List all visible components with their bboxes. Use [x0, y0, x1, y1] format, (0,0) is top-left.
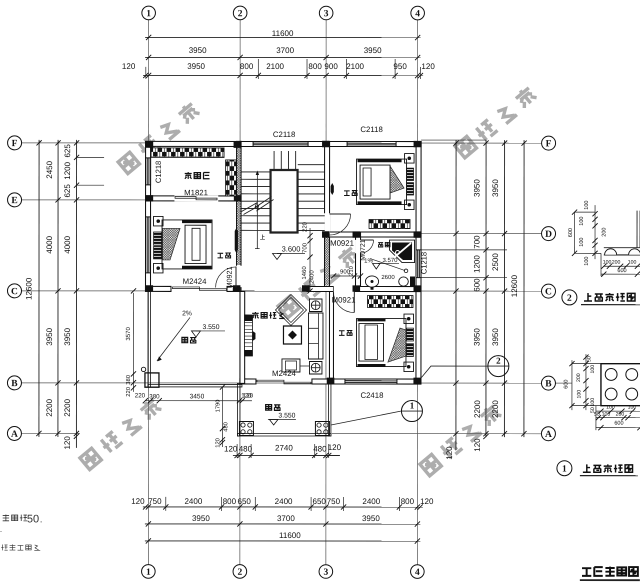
svg-text:D: D: [545, 230, 552, 240]
bedroom1 nightstand top: [154, 216, 164, 226]
svg-text:700: 700: [473, 235, 482, 249]
svg-text:200: 200: [612, 260, 621, 266]
svg-text:100: 100: [590, 398, 596, 407]
svg-text:900: 900: [340, 270, 351, 276]
svg-text:4: 4: [415, 9, 420, 19]
wardrobe band closet right: [226, 160, 237, 196]
level 3.570: [378, 263, 399, 265]
terrace parapet bottom: [148, 384, 242, 387]
svg-text:3950: 3950: [63, 327, 72, 345]
svg-text:3.550: 3.550: [278, 412, 295, 419]
svg-text:3950: 3950: [189, 46, 207, 55]
svg-text:3: 3: [324, 9, 329, 19]
svg-text:12600: 12600: [24, 277, 33, 300]
svg-text:4000: 4000: [45, 235, 54, 253]
column detail 2 drawing: [574, 212, 576, 253]
svg-text:2200: 2200: [491, 400, 500, 418]
desk+chair: [282, 359, 300, 372]
window C1218 closet left: [146, 158, 151, 185]
svg-text:2200: 2200: [45, 398, 54, 416]
window C1218 bath right: [416, 250, 421, 278]
svg-text:C: C: [11, 287, 18, 297]
column section 600x600: [601, 364, 640, 406]
svg-text:3950: 3950: [45, 327, 54, 345]
svg-text:750: 750: [327, 497, 341, 506]
svg-text:480: 480: [223, 422, 229, 432]
svg-text:600: 600: [617, 268, 626, 274]
svg-text:100: 100: [628, 260, 637, 266]
svg-text:2600: 2600: [381, 275, 395, 281]
svg-text:120: 120: [420, 497, 434, 506]
door M2424 family sliding: [257, 380, 284, 382]
door M0721 bath leaf+arc: [361, 239, 374, 241]
stair well landing void: [271, 170, 298, 233]
bath slope line: [370, 259, 405, 271]
svg-text:50: 50: [586, 356, 592, 362]
svg-text:50: 50: [27, 513, 39, 525]
bedroom1 bed: [162, 220, 212, 269]
svg-text:3.600: 3.600: [282, 244, 301, 253]
bedroom2 dresser: [369, 220, 410, 229]
svg-text:100: 100: [606, 405, 615, 411]
svg-text:380: 380: [149, 393, 160, 400]
svg-text:220: 220: [135, 392, 146, 399]
grid bubble A left: [7, 426, 21, 440]
balcony railing: [237, 383, 240, 436]
ext line 625: [77, 156, 105, 158]
wall family room left: [240, 291, 245, 383]
svg-text:C2418: C2418: [360, 391, 383, 400]
side table bottom: [309, 361, 322, 374]
svg-text:.: .: [40, 514, 43, 524]
svg-text:3950: 3950: [472, 328, 481, 346]
bedroom2 wall lens: [331, 183, 334, 195]
svg-text:M0921: M0921: [330, 239, 354, 248]
bottom main dimension lines: [143, 506, 423, 508]
text 柱子大样图 1: [583, 464, 633, 472]
label 卧室 bedroom1: [218, 253, 231, 258]
detail callout 1: [331, 411, 402, 425]
wall bathroom left: [356, 232, 361, 292]
right dimension lines: [455, 140, 457, 450]
axis D: [416, 233, 542, 235]
svg-text:800: 800: [240, 62, 254, 71]
svg-text:3.570: 3.570: [383, 258, 399, 264]
svg-text:2400: 2400: [275, 497, 293, 506]
note 际施工确定: [1, 544, 39, 550]
svg-text:100: 100: [579, 217, 585, 226]
columns at wall junctions: [146, 141, 154, 147]
svg-text:2200: 2200: [473, 400, 482, 418]
terrace drain: [141, 367, 145, 371]
svg-text:800: 800: [223, 497, 237, 506]
wall row C segments: [146, 286, 172, 291]
text 柱子大样图 2: [584, 293, 635, 301]
svg-text:2740: 2740: [275, 443, 293, 452]
grid bubble C left: [7, 284, 21, 298]
svg-text:C1218: C1218: [420, 252, 429, 274]
grid bubble F left: [8, 136, 22, 150]
toilet: [399, 277, 409, 286]
svg-text:120: 120: [473, 438, 482, 452]
corner column terrace B1: [145, 373, 159, 387]
grid bubble 2 top: [233, 6, 247, 20]
wall col2 (stairwell left): [237, 141, 242, 291]
svg-text:120: 120: [63, 436, 72, 450]
label 衣帽间: [185, 172, 210, 179]
svg-text:12600: 12600: [510, 274, 519, 297]
svg-text:100: 100: [576, 390, 582, 399]
svg-text:2: 2: [567, 294, 572, 304]
svg-text:220: 220: [303, 221, 309, 232]
svg-text:3950: 3950: [187, 62, 205, 71]
bedroom3 bed: [356, 319, 406, 367]
hall dim chain: [309, 228, 311, 291]
svg-text:C1218: C1218: [154, 161, 163, 183]
grid bubble 4 bottom: [411, 565, 425, 579]
door opening M1821: [174, 195, 218, 201]
svg-text:2500: 2500: [491, 253, 500, 271]
watermark 2 图纸之家: [455, 85, 538, 158]
svg-text:M1821: M1821: [184, 188, 208, 197]
door opening M0921 bedroom1: [236, 266, 242, 287]
svg-text:120: 120: [445, 446, 454, 460]
label 露台: [182, 337, 196, 343]
grid bubble B left: [7, 376, 21, 390]
svg-text:600: 600: [614, 421, 623, 427]
svg-text:100: 100: [579, 238, 585, 247]
svg-text:3950: 3950: [473, 179, 482, 197]
terrace parapet left: [148, 291, 151, 387]
svg-text:3570: 3570: [126, 327, 132, 341]
svg-text:2%: 2%: [182, 310, 192, 317]
sofa: [308, 313, 323, 359]
label 公卫: [378, 242, 390, 247]
stair treads left flight: [241, 172, 270, 230]
svg-text:3.550: 3.550: [202, 324, 219, 331]
svg-text:A: A: [545, 430, 552, 440]
coffee table: [283, 326, 301, 344]
floor drain bath: [404, 269, 408, 273]
svg-text:11600: 11600: [272, 29, 294, 38]
door opening M0921 bedroom2: [324, 213, 330, 234]
door opening M0721 bath: [355, 240, 361, 253]
grid axis lines: [147, 20, 149, 565]
top dimension lines: [145, 36, 420, 38]
side table top: [309, 299, 322, 312]
svg-text:380: 380: [126, 375, 132, 385]
svg-text:M2424: M2424: [272, 369, 297, 378]
svg-text:B: B: [11, 379, 18, 389]
svg-text:3950: 3950: [491, 328, 500, 346]
ext line window: [421, 249, 507, 251]
svg-text:100: 100: [602, 412, 611, 418]
door M0921 bedroom3 leaf+arc: [353, 292, 355, 313]
svg-text:3: 3: [323, 568, 328, 578]
door M0921 bedroom1 leaf+arc: [235, 266, 237, 287]
svg-text:600: 600: [568, 228, 574, 237]
wall exterior left: [146, 141, 151, 291]
grid bubble 3 top: [319, 6, 333, 20]
bedroom1 headboard cabinets: [154, 232, 162, 246]
svg-text:600: 600: [563, 380, 569, 389]
bedroom3 headboard cabinets: [406, 328, 413, 341]
grid bubble 3 bottom: [319, 565, 333, 579]
svg-text:1460: 1460: [302, 266, 308, 280]
svg-text:3700: 3700: [277, 514, 295, 523]
svg-text:4: 4: [415, 568, 420, 578]
wall row D (bedroom2/bath): [325, 232, 422, 237]
svg-text:1: 1: [146, 568, 151, 578]
svg-text:700: 700: [303, 242, 309, 253]
svg-text:600: 600: [473, 278, 482, 292]
wall row B (family+bedroom3 bottom): [240, 379, 256, 384]
stair break line: [242, 196, 272, 211]
svg-text:950: 950: [393, 62, 407, 71]
svg-text:480: 480: [313, 444, 327, 453]
window C2118 bedroom2: [347, 142, 396, 147]
rebar circle: [626, 369, 638, 381]
rebar circle: [626, 388, 638, 400]
door M2424 sliding (bedroom1): [173, 287, 200, 289]
svg-text:M2424: M2424: [183, 277, 208, 286]
wall row E (closet/bedroom1): [146, 196, 242, 201]
svg-text:3950: 3950: [491, 179, 500, 197]
window C2118 stairwell: [253, 141, 308, 146]
svg-text:1: 1: [562, 465, 567, 475]
svg-text:100: 100: [590, 365, 596, 374]
left dimension lines: [38, 140, 40, 437]
level mark 3.600: [277, 252, 305, 254]
wall family/bedroom3 divider: [329, 292, 333, 384]
wall exterior right: [416, 142, 421, 384]
bedroom2 nightstand right-top: [405, 154, 415, 164]
svg-text:120: 120: [215, 438, 221, 448]
door M0921 bedroom2 leaf+arc: [330, 213, 351, 215]
svg-text:3950: 3950: [362, 514, 380, 523]
svg-text:1200: 1200: [63, 161, 72, 179]
svg-text:480: 480: [239, 444, 253, 453]
svg-text:B: B: [545, 379, 552, 389]
door opening M0921 bedroom3: [334, 286, 355, 293]
svg-text:C2118: C2118: [273, 130, 295, 139]
grid bubble A right: [541, 427, 555, 441]
balcony level 3.550: [268, 418, 296, 420]
svg-text:625: 625: [63, 144, 72, 158]
svg-text:2: 2: [496, 356, 501, 366]
svg-text:2200: 2200: [63, 398, 72, 416]
label 卧室 bedroom2: [344, 191, 357, 196]
grid bubble 4 top: [411, 6, 425, 20]
svg-text:120: 120: [241, 392, 252, 399]
tv: [252, 331, 255, 341]
title 二层平面图: [582, 567, 638, 576]
floor line hall/family room: [240, 290, 308, 292]
door M1821 sliding (closet): [175, 197, 196, 199]
svg-text:2450: 2450: [45, 160, 54, 178]
bedroom1 wall lens: [235, 228, 238, 253]
balcony dimension line: [233, 454, 340, 456]
label 1 柱子大样图: [557, 461, 572, 476]
svg-text:900: 900: [324, 62, 338, 71]
bedroom3 dresser: [367, 296, 413, 308]
grid bubble B right: [541, 376, 555, 390]
svg-text:1: 1: [410, 401, 415, 411]
window C2424 bedroom1 left: [146, 217, 151, 273]
svg-text:E: E: [11, 196, 17, 206]
rug diamond: [275, 294, 306, 325]
wall col3 (stairwell right): [325, 142, 330, 292]
svg-text:M0721: M0721: [360, 239, 367, 261]
svg-text:3950: 3950: [192, 514, 210, 523]
stair up arrow 上: [256, 172, 258, 249]
door opening M2424 bedroom1: [172, 286, 227, 293]
svg-text:120: 120: [122, 62, 136, 71]
terrace bottom dim line: [145, 400, 252, 402]
svg-text:3950: 3950: [364, 46, 382, 55]
svg-text:200: 200: [602, 228, 608, 237]
svg-text:220: 220: [126, 387, 132, 397]
axis F: [22, 142, 542, 144]
svg-text:100: 100: [603, 260, 612, 266]
svg-text:A: A: [11, 430, 18, 440]
svg-text:2: 2: [238, 9, 243, 19]
svg-text:.: .: [0, 525, 2, 534]
svg-text:1: 1: [146, 9, 151, 19]
svg-text:1790: 1790: [215, 399, 221, 412]
label 家庭娱乐: [252, 312, 285, 318]
terrace level 3.550: [196, 330, 225, 332]
stair upper flight rails: [274, 151, 296, 170]
bedroom2 bed: [357, 159, 407, 205]
terrace slope arrow 2%: [157, 317, 190, 361]
svg-text:120: 120: [224, 444, 238, 453]
window C2418 bedroom3: [345, 379, 397, 384]
bedroom2 nightstand right-bottom: [405, 200, 415, 210]
grid bubble E left: [8, 193, 22, 207]
grid bubble 2 bottom: [233, 565, 247, 579]
svg-text:650: 650: [313, 497, 327, 506]
svg-text:120: 120: [421, 62, 435, 71]
grid bubble F right: [542, 136, 556, 150]
tv cabinet: [244, 315, 252, 356]
svg-text:3700: 3700: [276, 46, 294, 55]
ext line 1200: [77, 184, 105, 186]
svg-text:2100: 2100: [346, 62, 364, 71]
label 卧室 bedroom3: [339, 330, 352, 335]
bedroom2 headboard cabinets: [407, 168, 414, 181]
svg-text:F: F: [12, 139, 18, 149]
svg-text:2400: 2400: [310, 270, 316, 284]
svg-text:M0921: M0921: [225, 266, 234, 288]
grid bubble C right: [541, 284, 555, 298]
svg-text:2100: 2100: [266, 62, 284, 71]
svg-text:800: 800: [401, 497, 415, 506]
svg-text:200: 200: [576, 373, 582, 382]
stair treads right flight: [298, 165, 325, 231]
bedroom3 nightstand bottom: [404, 362, 414, 372]
wall exterior top (F): [146, 141, 422, 146]
svg-text:625: 625: [63, 184, 72, 198]
rebar circle: [605, 369, 617, 381]
corridor dim 900: [334, 275, 361, 277]
svg-text:120: 120: [328, 443, 342, 452]
dim chain 1790/480/120: [221, 387, 223, 447]
svg-text:200: 200: [616, 412, 625, 418]
grid bubble 1 top: [142, 6, 156, 20]
svg-text:2400: 2400: [362, 497, 380, 506]
detail2 wall at right: [636, 211, 638, 248]
watermark 4 图纸之家: [79, 397, 162, 470]
svg-text:50: 50: [594, 412, 600, 418]
sink: [365, 276, 378, 287]
svg-text:750: 750: [148, 497, 162, 506]
watermark 3 图纸之家: [277, 245, 360, 318]
axis E: [22, 199, 155, 201]
svg-text:11600: 11600: [279, 531, 301, 540]
svg-text:2400: 2400: [184, 497, 202, 506]
svg-text:100: 100: [628, 405, 637, 411]
watermark 5 图纸之家: [419, 403, 502, 476]
svg-text:M0921: M0921: [332, 296, 356, 305]
axis B: [21, 382, 541, 384]
detail2 bottom dims: [604, 265, 640, 267]
svg-text:.: .: [39, 546, 41, 553]
watermark 1 图纸之家: [118, 101, 201, 174]
svg-text:F: F: [546, 139, 552, 149]
svg-text:4000: 4000: [63, 235, 72, 253]
svg-text:100: 100: [584, 257, 590, 266]
svg-text:100: 100: [584, 201, 590, 210]
label 阳台: [266, 405, 281, 411]
detail2 slab section with hollow cores: [604, 247, 640, 249]
label 2 柱子大样图: [562, 290, 577, 305]
svg-text:800: 800: [308, 62, 322, 71]
svg-text:3450: 3450: [190, 393, 205, 400]
note 地面做: [3, 514, 27, 521]
grid bubble D right: [542, 227, 556, 241]
shower: [390, 240, 415, 263]
svg-text:650: 650: [238, 497, 252, 506]
svg-text:2: 2: [237, 568, 242, 578]
bedroom3 nightstand top: [404, 314, 414, 324]
wardrobe band closet top: [151, 148, 224, 158]
bedroom1 nightstand bottom: [154, 263, 164, 273]
axis C: [22, 290, 542, 292]
rebar circle: [605, 388, 617, 400]
svg-text:C2118: C2118: [360, 125, 382, 134]
terrace inner dim chain vertical: [132, 293, 134, 392]
grid bubble 1 bottom: [142, 565, 156, 579]
title underline: [580, 579, 640, 581]
balcony corner posts: [239, 421, 253, 435]
svg-text:C: C: [545, 287, 552, 297]
axis A: [21, 432, 79, 434]
detail callout 2: [421, 366, 488, 378]
svg-text:1200: 1200: [473, 255, 482, 273]
svg-text:120: 120: [131, 497, 145, 506]
